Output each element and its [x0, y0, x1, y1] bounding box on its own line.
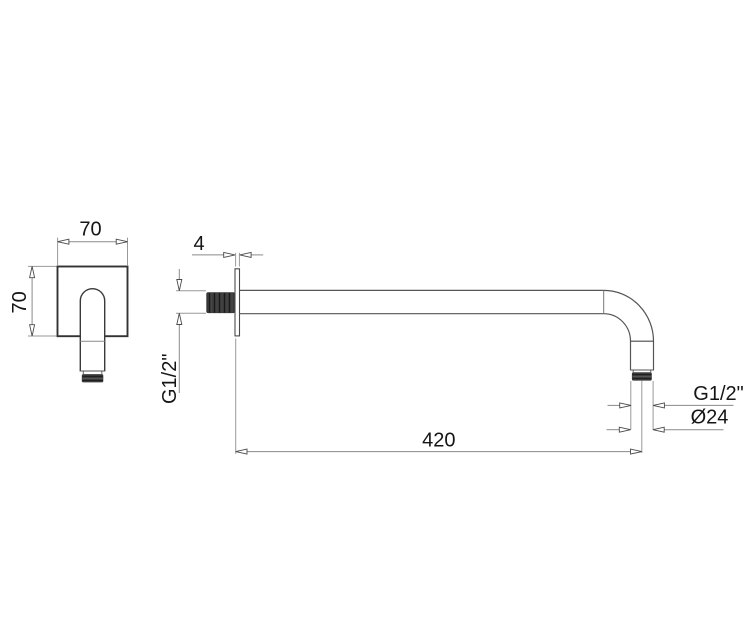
dimension G1/2 inch wall thread (left, rotated): [159, 269, 206, 404]
svg-text:70: 70: [9, 291, 31, 313]
outlet thread G1/2 side view: [632, 372, 652, 380]
wall thread G1/2 side view: [206, 292, 235, 313]
threaded outlet G1/2 front view: [82, 374, 104, 382]
svg-text:420: 420: [422, 430, 455, 452]
svg-text:G1/2": G1/2": [159, 354, 181, 404]
joint line on stem: [80, 340, 104, 342]
thread neck ticks front view: [83, 372, 102, 375]
dimension 420 arm length (bottom): [236, 339, 642, 455]
bend end tangent line: [631, 340, 654, 342]
outlet thread neck ticks side view: [633, 371, 651, 373]
shower arm tube inner contour: [240, 314, 631, 370]
dimension G1/2 inch outlet thread (right): [608, 383, 744, 408]
svg-text:Ø24: Ø24: [691, 406, 729, 428]
svg-text:G1/2": G1/2": [693, 383, 743, 405]
dimension 70 horizontal (top): [58, 219, 128, 266]
dimension 70 vertical (left): [9, 266, 57, 336]
extension lines below outlet: [631, 381, 653, 430]
escutcheon square plate 70x70 front view: [58, 267, 128, 339]
outlet tube end line: [630, 369, 654, 371]
svg-text:70: 70: [79, 219, 101, 241]
svg-text:4: 4: [193, 233, 204, 255]
dimension 4 (plate thickness): [192, 233, 263, 267]
shower arm tube outer contour with 90 deg bend: [240, 290, 654, 370]
bend start tangent line: [603, 290, 605, 313]
arm tube front view (inverted U + stem): [80, 289, 106, 371]
wall flange plate side view (4mm): [235, 269, 240, 336]
outlet centre line extension: [641, 381, 643, 453]
dimension diameter 24 outlet (right): [607, 406, 729, 432]
